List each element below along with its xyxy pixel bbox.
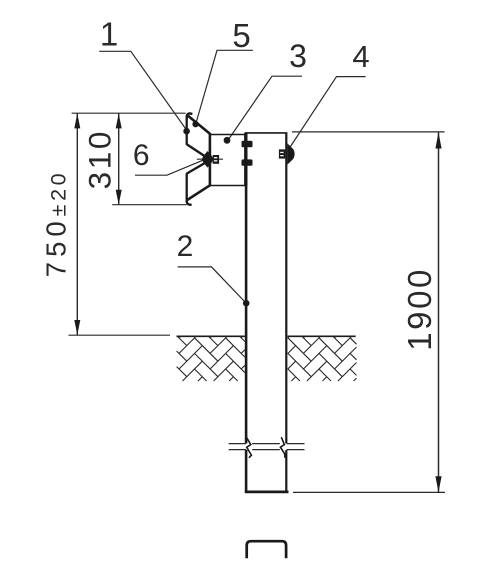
leader to part 5: [196, 50, 253, 123]
leader dot part 2: [243, 300, 250, 307]
leader dot part 3: [224, 137, 231, 144]
arrow 310 top: [116, 113, 122, 128]
splice bolt 6 centerline: [197, 158, 223, 160]
extension line 310 bottom: [112, 204, 186, 206]
post bottom edge: [245, 490, 289, 493]
svg-text:310: 310: [82, 129, 118, 189]
arrow 750 top: [74, 113, 80, 128]
extension line top (shared 310/750): [72, 112, 186, 114]
W-beam middle slope upper: [187, 144, 209, 158]
post bolt 4 dome head and washer cone: [287, 143, 294, 164]
leader dot part 1: [183, 128, 190, 135]
splice bolt 6 nut: [213, 155, 220, 164]
break zigzag left: [246, 437, 251, 458]
W-beam top slope + back face + lower outer slope: [187, 116, 210, 200]
break symbol line upper: [229, 443, 305, 445]
arrow 1900 bottom: [435, 476, 441, 492]
post top edge: [245, 132, 288, 134]
leader to part 3: [229, 76, 302, 139]
bracket bolt lower: [242, 159, 253, 165]
break zigzag right: [280, 437, 285, 458]
extension line 750 bottom: [69, 334, 171, 336]
arrow 750 bottom: [74, 320, 80, 335]
bracket bolt upper: [242, 141, 253, 148]
leader to part 4: [290, 77, 366, 148]
W-beam front face lower: [186, 173, 188, 200]
leader to part 6: [135, 160, 203, 175]
W-beam bottom lip hook: [187, 199, 192, 205]
ground hatch left: [177, 337, 245, 381]
svg-text:4: 4: [352, 39, 369, 74]
svg-text:5: 5: [232, 17, 250, 54]
svg-text:6: 6: [133, 139, 150, 172]
extension line 1900 top: [292, 131, 445, 133]
extension line 1900 bottom: [293, 491, 445, 493]
leader dot part 5: [192, 121, 198, 127]
svg-text:1900: 1900: [401, 267, 438, 351]
svg-text:1: 1: [100, 16, 118, 53]
W-beam top lip hook: [187, 113, 193, 118]
break symbol line lower: [229, 449, 305, 451]
ground line right: [288, 335, 356, 337]
leader to part 1: [99, 51, 187, 130]
bracket right edge (on post flange): [244, 133, 247, 186]
bracket bottom edge: [210, 185, 246, 187]
ground line left: [177, 335, 245, 337]
dimension line 310: [118, 113, 120, 204]
leader to part 2: [178, 267, 246, 303]
svg-text:3: 3: [289, 38, 307, 74]
dimension line 750: [76, 113, 78, 335]
post P (sigma post) left edge: [245, 133, 248, 443]
arrow 1900 top: [435, 133, 441, 149]
arrow 310 bottom: [116, 190, 122, 205]
post top view (channel section): [247, 541, 286, 558]
post right edge: [285, 133, 287, 443]
post bolt 4 nut (left of post web): [279, 149, 285, 158]
bracket (spacer block) top edge: [210, 134, 246, 136]
dimension line 1900: [438, 133, 440, 493]
splice bolt 6 mushroom head (diamond): [202, 151, 213, 168]
svg-text:2: 2: [177, 230, 194, 263]
svg-text:750±20: 750±20: [41, 170, 72, 277]
W-beam front face upper: [186, 118, 188, 145]
W-beam middle slope lower: [187, 161, 209, 174]
ground hatch right: [288, 337, 357, 381]
